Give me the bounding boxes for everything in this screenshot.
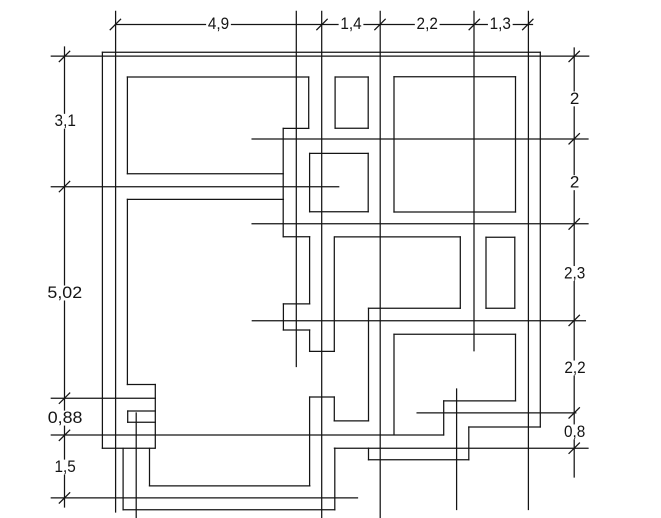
pier right xyxy=(309,237,311,304)
wire extension line N (y=435) xyxy=(51,434,443,436)
roomA bottom xyxy=(335,127,368,129)
wall porch left vertical xyxy=(309,397,311,486)
wall entry niche bottom xyxy=(128,421,156,423)
wire extension line L (y=398) xyxy=(51,397,155,399)
wall entry niche left xyxy=(127,411,129,422)
wall porch bottom xyxy=(150,485,310,487)
roomE right xyxy=(459,237,461,308)
pier left lower xyxy=(282,304,284,330)
room1 bottom xyxy=(127,173,283,175)
wire extension line D (top tick) xyxy=(379,11,381,517)
wall step vertical mid lower xyxy=(368,448,370,460)
roomA top xyxy=(335,76,368,78)
roomB bottom xyxy=(310,211,369,213)
wire extension line H (y=139) xyxy=(252,138,588,140)
wire extension line G (y=56) xyxy=(51,55,588,57)
wall ledge xyxy=(334,420,368,422)
roomE top xyxy=(335,236,461,238)
wire extension line C (top tick) xyxy=(321,11,323,517)
wall terrace jamb xyxy=(443,401,445,435)
svg-text:4,9: 4,9 xyxy=(208,14,229,33)
wall step bottom xyxy=(369,459,469,461)
dimension ticks left xyxy=(59,51,69,61)
roomB left xyxy=(309,153,311,211)
roomB right xyxy=(367,153,369,211)
room1 jog vertical xyxy=(282,128,284,236)
pier foot right xyxy=(309,330,311,351)
pier foot xyxy=(283,329,309,331)
wall outer step left xyxy=(122,448,124,509)
roomC left xyxy=(393,77,395,212)
svg-text:2,2: 2,2 xyxy=(417,14,438,33)
roomG left xyxy=(393,334,395,435)
wall ledge top xyxy=(310,396,335,398)
svg-text:1,5: 1,5 xyxy=(54,457,75,476)
roomB top xyxy=(310,152,369,154)
wall outer step right xyxy=(334,448,336,510)
wall step vertical mid upper xyxy=(368,308,370,421)
wall exterior bottom right xyxy=(469,426,541,428)
wall exterior top xyxy=(102,51,540,53)
wire extension line K (y=320) xyxy=(252,320,585,322)
wire terrace post line xyxy=(456,389,458,510)
roomD top xyxy=(486,236,515,238)
roomG right xyxy=(515,334,517,401)
room1 right upper xyxy=(308,77,310,128)
svg-text:1,3: 1,3 xyxy=(490,14,511,33)
wire stair rail line xyxy=(135,413,137,518)
roomC top xyxy=(394,76,516,78)
wall outer step bottom xyxy=(123,509,335,511)
wire extension line E (top tick) xyxy=(473,11,475,350)
svg-text:2: 2 xyxy=(570,173,579,192)
svg-text:1,4: 1,4 xyxy=(340,14,361,33)
dimension ticks top xyxy=(110,19,120,29)
room2 left xyxy=(126,199,128,384)
wall exterior right xyxy=(539,52,541,427)
wire construction line B xyxy=(295,11,297,366)
room1 left xyxy=(126,77,128,174)
svg-text:5,02: 5,02 xyxy=(47,283,82,302)
wire extension line F (top tick right) xyxy=(527,11,529,509)
wall entry niche top xyxy=(128,410,156,412)
wire extension line O (y=448) xyxy=(334,447,588,449)
svg-text:2: 2 xyxy=(570,89,579,108)
roomG top xyxy=(394,333,516,335)
room1 top xyxy=(127,76,308,78)
closet left wall xyxy=(333,237,335,352)
roomD bottom xyxy=(486,307,515,309)
wire extension line J (y=224) xyxy=(252,223,588,225)
dimension line right xyxy=(573,48,575,91)
room1 jog xyxy=(283,127,309,129)
svg-text:0,8: 0,8 xyxy=(564,422,585,441)
wall terrace top right xyxy=(444,400,516,402)
wall entry bottom stub xyxy=(102,447,154,449)
wire extension line I (y=187) xyxy=(51,186,338,188)
roomE bottom xyxy=(369,307,461,309)
dimension line top xyxy=(115,24,205,26)
svg-text:3,1: 3,1 xyxy=(55,111,76,130)
wire extension line P (y=498) xyxy=(51,497,357,499)
roomD right xyxy=(514,237,516,308)
pier foot bottom xyxy=(310,350,335,352)
wall exterior left xyxy=(101,52,103,448)
roomC right xyxy=(515,77,517,212)
roomA left xyxy=(334,77,336,128)
room2 top xyxy=(127,198,283,200)
roomD left xyxy=(485,237,487,308)
pier bottom xyxy=(283,303,309,305)
wire extension line M (y=413) xyxy=(417,412,576,414)
roomC bottom xyxy=(394,211,516,213)
wire extension line A (top tick 4,9 left / wall inner) xyxy=(115,11,117,512)
pier top xyxy=(283,236,309,238)
svg-text:2,2: 2,2 xyxy=(564,358,585,377)
wall entry vertical xyxy=(154,385,156,449)
wall porch left step xyxy=(149,448,151,486)
dimension ticks right xyxy=(569,51,579,61)
wall entry top xyxy=(127,384,155,386)
roomA right xyxy=(367,77,369,128)
dimension line left xyxy=(64,47,66,113)
wall ledge vertical xyxy=(333,397,335,421)
svg-text:0,88: 0,88 xyxy=(48,408,83,427)
wall step right xyxy=(468,427,470,460)
svg-text:2,3: 2,3 xyxy=(564,263,585,282)
